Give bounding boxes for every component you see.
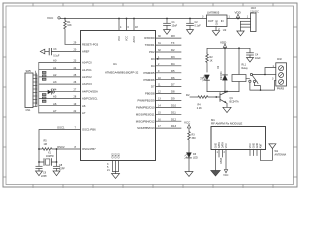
resistor network blocks on CN1 wires [42, 71, 46, 102]
svg-text:BC547A: BC547A [230, 101, 239, 104]
svg-text:1: 1 [229, 15, 231, 18]
resistor R4 2.2K [198, 96, 220, 99]
svg-text:A4: A4 [53, 87, 57, 91]
svg-text:D11: D11 [171, 110, 176, 114]
VCC supply symbol (power LED) [184, 121, 191, 128]
svg-text:A7: A7 [82, 111, 86, 115]
svg-text:2: 2 [218, 28, 220, 31]
svg-text:A6: A6 [82, 104, 86, 108]
svg-text:20: 20 [74, 49, 77, 52]
svg-text:LM78M05: LM78M05 [207, 11, 220, 15]
svg-text:PB0/D8: PB0/D8 [145, 92, 155, 96]
CN3 ground pins wire to ground [241, 21, 251, 31]
relay switch contacts [249, 73, 258, 83]
crystal X1 16MHz [44, 159, 52, 166]
svg-text:21: 21 [107, 169, 110, 172]
svg-text:10uF: 10uF [255, 57, 261, 60]
sheet frame outer border [3, 3, 297, 187]
M1 left pins GND DATA DATA VCC [216, 150, 227, 171]
svg-text:D7: D7 [151, 85, 155, 89]
VDD rail of relay section [207, 48, 250, 53]
svg-text:PWM/D6: PWM/D6 [144, 78, 155, 82]
svg-text:1M: 1M [44, 143, 47, 146]
diode D2 1N4004 (flyback) [217, 48, 227, 91]
U1 top power pin stubs VCC VCC AVCC [119, 19, 134, 31]
svg-text:OSC2: OSC2 [57, 145, 65, 149]
svg-text:3: 3 [202, 15, 204, 18]
sheet frame inner border [6, 6, 294, 185]
svg-text:SCK/PB5/D13: SCK/PB5/D13 [137, 126, 155, 130]
svg-text:D13: D13 [171, 124, 177, 128]
svg-text:D10: D10 [171, 104, 177, 108]
svg-text:D4: D4 [151, 64, 155, 68]
svg-text:PWM/PB1/D9: PWM/PB1/D9 [138, 99, 155, 103]
capacitor C1 10uF [164, 19, 171, 30]
svg-text:18: 18 [135, 26, 138, 29]
junction C1 [166, 18, 168, 20]
svg-text:VDD: VDD [220, 41, 227, 45]
svg-text:A2-PC2: A2-PC2 [82, 75, 92, 79]
svg-text:A5: A5 [53, 95, 57, 99]
relay mechanical link [246, 77, 250, 79]
ground arrow (power LED) [185, 172, 193, 177]
VCC supply symbol top-left [47, 16, 60, 20]
resistor R2 [206, 53, 209, 72]
OSC1 wire [39, 130, 81, 163]
svg-text:GND: GND [118, 153, 121, 159]
svg-text:A1: A1 [53, 66, 57, 70]
svg-text:22PF: 22PF [41, 175, 47, 178]
svg-text:U1: U1 [113, 62, 117, 66]
svg-text:A3: A3 [53, 80, 57, 84]
svg-text:CN2: CN2 [277, 58, 283, 61]
diode symbol in CN1 area [48, 89, 55, 95]
svg-text:RESET/-PC6: RESET/-PC6 [82, 42, 99, 46]
svg-text:RXD/D0: RXD/D0 [144, 36, 155, 40]
svg-text:OUT: OUT [208, 19, 214, 23]
svg-text:D5: D5 [171, 69, 175, 73]
VDD supply symbol at regulator input [235, 10, 242, 19]
svg-text:VCC: VCC [126, 36, 129, 41]
ground arrow left (AREF) [40, 49, 45, 54]
svg-text:A5/PC5/SCL: A5/PC5/SCL [82, 97, 98, 101]
U1 bottom GND pin stubs [113, 161, 119, 174]
svg-text:MISO/PB4/D12: MISO/PB4/D12 [136, 119, 155, 123]
svg-text:D8: D8 [171, 90, 175, 94]
U1 right pins with net stubs [156, 38, 181, 128]
wire U2 IN to CN3 [227, 18, 251, 20]
svg-text:LED: LED [203, 75, 206, 80]
svg-text:VCC: VCC [47, 16, 54, 20]
svg-text:A0-PC0: A0-PC0 [82, 61, 92, 65]
junction crystal right node [56, 161, 58, 163]
svg-text:D3: D3 [151, 57, 155, 61]
svg-text:PWR3: PWR3 [277, 87, 285, 90]
U2 GND stub + ground arrow [215, 27, 217, 31]
frame ruler ticks [3, 3, 297, 188]
svg-text:D4: D4 [171, 62, 175, 66]
svg-text:U2: U2 [223, 28, 227, 32]
antenna W1 labels [275, 150, 287, 157]
junction crystal left node [38, 161, 40, 163]
svg-text:RL1: RL1 [242, 64, 247, 67]
ground arrow (module GND) [211, 171, 220, 177]
svg-text:ANTENNA: ANTENNA [275, 154, 287, 157]
svg-text:330: 330 [192, 137, 197, 140]
svg-text:LED: LED [193, 157, 198, 160]
collector node wire [207, 91, 239, 93]
svg-text:GND: GND [216, 20, 219, 26]
svg-text:12V DC: 12V DC [250, 10, 259, 13]
VCC rail wire to regulator [60, 18, 206, 20]
svg-text:D2: D2 [217, 65, 220, 69]
svg-text:VCC: VCC [223, 174, 228, 177]
U1 left pins [45, 44, 81, 51]
svg-text:TXD/D1: TXD/D1 [145, 43, 155, 47]
svg-text:C3: C3 [53, 48, 57, 51]
svg-text:PD2: PD2 [149, 50, 155, 54]
junction C2 [189, 18, 191, 20]
svg-text:22PF: 22PF [59, 167, 65, 170]
svg-text:VCC: VCC [225, 143, 228, 148]
junction switch common wire [264, 74, 266, 76]
svg-text:D3: D3 [171, 55, 175, 59]
svg-text:ANT: ANT [260, 143, 263, 148]
svg-text:D6: D6 [171, 76, 175, 80]
capacitor C2 0.1uF [187, 19, 194, 30]
svg-text:OSC1-PB6: OSC1-PB6 [82, 128, 96, 132]
svg-text:1N4004: 1N4004 [220, 71, 223, 80]
svg-text:A7: A7 [53, 109, 57, 113]
capacitor C8 22PF [53, 162, 59, 171]
capacitor C4 10uF [247, 53, 254, 58]
svg-text:A6: A6 [53, 102, 57, 106]
LED D3 (power) [185, 153, 198, 172]
voltage regulator U2 LM78M05 [202, 11, 231, 32]
LED D1 [201, 75, 210, 92]
connector CN1 / SW5 block [25, 70, 33, 112]
antenna W1 symbol [269, 144, 276, 149]
svg-text:ATMEGA48/88/168QFP-32: ATMEGA48/88/168QFP-32 [105, 70, 139, 74]
svg-text:DATA: DATA [220, 157, 223, 164]
svg-text:TX: TX [171, 41, 175, 45]
VDD supply symbol (relay section) [220, 41, 227, 48]
resistor R3 [188, 128, 191, 152]
VCC supply arrow down at module pin [224, 170, 227, 173]
svg-text:32: 32 [158, 49, 161, 52]
svg-text:6: 6 [128, 26, 130, 29]
svg-text:VCC: VCC [118, 36, 121, 41]
svg-text:RX: RX [171, 34, 175, 38]
vertical bus lines CN1 fanout [35, 71, 36, 107]
transistor Q1 BC547A [220, 92, 227, 103]
M1 right pins VCC GND GND ANT [250, 150, 261, 161]
svg-text:3: 3 [272, 78, 274, 81]
svg-text:1: 1 [247, 16, 249, 19]
svg-text:A4/PC4/SDA: A4/PC4/SDA [82, 89, 98, 93]
svg-text:D7: D7 [171, 83, 175, 87]
svg-text:A3-PC3: A3-PC3 [82, 82, 92, 86]
resistor R1 10K (reset pullup) [64, 19, 67, 45]
svg-text:1: 1 [217, 151, 219, 154]
svg-text:PWM/PB2/D10: PWM/PB2/D10 [136, 106, 155, 110]
svg-text:D2: D2 [171, 48, 175, 52]
A0..A7 net wires to U1 [39, 63, 81, 113]
svg-text:23: 23 [74, 60, 77, 63]
svg-text:0.1uF: 0.1uF [53, 54, 60, 57]
svg-text:D2: D2 [186, 93, 190, 97]
junction R1 top [64, 18, 66, 20]
relay RL1 coil [232, 48, 249, 91]
resistor R5 1M [39, 148, 57, 151]
capacitor C9 22PF [36, 162, 42, 171]
junction switch NO wire [260, 89, 262, 91]
capacitor C3 0.1uF (AREF) [49, 48, 51, 55]
svg-text:0.1uF: 0.1uF [195, 25, 202, 28]
svg-text:OSC1: OSC1 [57, 126, 65, 130]
svg-text:A0: A0 [53, 59, 57, 63]
svg-text:10K: 10K [67, 24, 72, 27]
connector CN3 12V DC [247, 7, 259, 31]
svg-text:D9: D9 [171, 97, 175, 101]
svg-text:1K: 1K [210, 59, 213, 62]
svg-text:A1-PC1: A1-PC1 [82, 68, 92, 72]
antenna W1 wire [261, 149, 273, 161]
svg-text:D12: D12 [171, 117, 177, 121]
svg-text:16MHz: 16MHz [46, 155, 55, 158]
svg-text:OSC2-PB7: OSC2-PB7 [82, 147, 96, 151]
svg-text:RF AM/FM Rx MODULE: RF AM/FM Rx MODULE [211, 122, 242, 126]
svg-text:10uF: 10uF [172, 25, 178, 28]
svg-text:2: 2 [224, 151, 226, 154]
svg-text:Relay: Relay [242, 67, 249, 70]
terminal block CN2 [272, 58, 287, 91]
svg-text:MOSI/PB3/D11: MOSI/PB3/D11 [136, 112, 155, 116]
svg-text:4: 4 [120, 26, 122, 29]
svg-text:SW5: SW5 [26, 70, 32, 73]
MCU U1 body [81, 31, 156, 161]
ground symbol under U1 [112, 174, 120, 179]
RF module M1 body [211, 118, 266, 150]
svg-text:CN1: CN1 [26, 109, 32, 112]
switch wires to CN2 [250, 68, 276, 91]
OSC2 wire [52, 149, 81, 162]
svg-text:IN: IN [221, 19, 224, 23]
svg-text:A2: A2 [53, 73, 57, 77]
svg-text:1: 1 [158, 56, 160, 59]
svg-text:AVCC: AVCC [133, 36, 136, 43]
svg-text:17: 17 [158, 125, 161, 128]
svg-text:PWM/D5: PWM/D5 [144, 71, 155, 75]
CN1 pin stubs [33, 63, 39, 113]
svg-text:VCC: VCC [184, 121, 191, 125]
svg-text:2.2K: 2.2K [197, 107, 202, 110]
svg-text:AREF: AREF [82, 50, 90, 54]
